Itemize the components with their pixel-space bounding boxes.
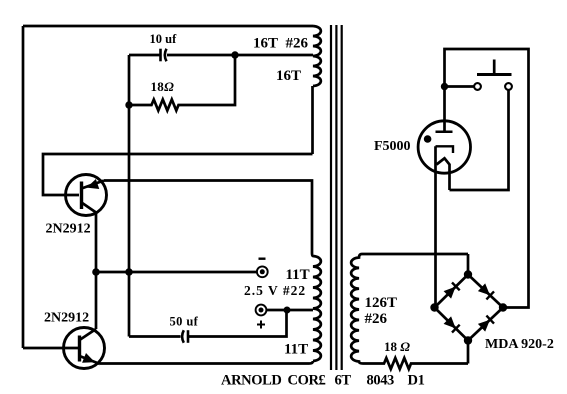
transistor Q1 base bar	[80, 182, 83, 210]
transistor Q2 2N2912 circle	[64, 328, 105, 369]
diode D4 bottom-right arrow to right node	[479, 321, 489, 331]
diode D2 top-right arrow to right node	[479, 284, 489, 294]
wire vertical x129	[128, 55, 131, 337]
capacitor C2 50 uf	[182, 330, 184, 343]
svg-text:16T #26: 16T #26	[253, 35, 309, 51]
svg-text:COR£: COR£	[288, 373, 326, 389]
flash tube trigger dot	[424, 135, 432, 143]
wire collectors y272	[96, 271, 257, 274]
flash tube cathode lead to bridge left	[434, 146, 437, 307]
svg-text:126T: 126T	[365, 295, 398, 311]
wire bridge right to rail	[445, 49, 529, 308]
capacitor C1 10 uf	[159, 49, 162, 62]
svg-text:2N2912: 2N2912	[46, 222, 91, 237]
transformer T1 winding 16T #26 + 16T	[313, 26, 321, 86]
wire tap 16T	[235, 54, 313, 57]
transformer winding 11T 11T	[313, 256, 321, 361]
transistor Q2 base bar	[78, 336, 81, 362]
svg-text:18Ω: 18Ω	[151, 79, 175, 94]
wire Q2 collector vertical	[95, 272, 98, 329]
transistor Q1 collector diagonal	[82, 203, 97, 273]
node junction tube top	[441, 83, 448, 90]
svg-text:2N2912: 2N2912	[44, 311, 89, 326]
node bridge left	[430, 303, 438, 311]
wire Q2 base	[23, 347, 78, 350]
wire top	[23, 25, 313, 28]
svg-text:ARNOLD: ARNOLD	[221, 373, 281, 389]
wire Q1 emitter to winding 11T top	[104, 181, 313, 257]
transformer core	[331, 25, 342, 370]
bridge rectifier MDA 920-2 edges	[435, 275, 504, 341]
svg-text:50 uf: 50 uf	[170, 315, 199, 329]
pushbutton switch S1 contact right	[505, 83, 512, 90]
svg-text:18 Ω: 18 Ω	[384, 339, 410, 354]
transistor Q2 emitter arrow	[83, 354, 94, 362]
transistor Q1 emitter arrow	[88, 180, 98, 188]
wire left rail	[22, 26, 25, 348]
terminal plus 2.5V	[256, 305, 267, 316]
resistor R1 18 ohm	[129, 55, 235, 111]
node junction R1 left	[125, 101, 132, 108]
flash tube F5000 envelope	[418, 121, 470, 173]
node junction collectors right	[125, 268, 133, 276]
wire bridge top lead	[467, 254, 470, 275]
pushbutton switch S1 contact left	[474, 83, 481, 90]
wire y151 to Q1 base loop	[43, 154, 313, 195]
diode D1 left-top arrow to top node	[445, 288, 455, 298]
wire winding bottom to y151	[311, 86, 314, 154]
transistor Q2 emitter diagonal	[80, 356, 101, 364]
wire bridge bottom lead	[467, 341, 470, 364]
svg-text:F5000: F5000	[374, 139, 411, 154]
flash tube anode bar	[436, 130, 453, 133]
node bridge bottom	[464, 336, 472, 344]
wire 50uf branch	[129, 310, 287, 337]
flash tube anode lead	[443, 87, 446, 132]
flash tube cathode filament	[437, 158, 450, 190]
node junction C1 tap	[231, 51, 238, 58]
transistor Q2 collector diagonal	[80, 329, 97, 340]
svg-text:D1: D1	[408, 373, 425, 389]
wire capacitor branch	[129, 54, 235, 57]
svg-text:8043: 8043	[367, 373, 395, 389]
svg-text:11T: 11T	[286, 267, 310, 283]
svg-text:2.5 V #22: 2.5 V #22	[244, 283, 306, 298]
diode D3 left-bottom arrow to bottom node	[445, 317, 455, 327]
flash tube electrode	[436, 146, 454, 153]
transformer winding 126T #26	[351, 254, 468, 364]
svg-text:#26: #26	[365, 311, 388, 327]
node junction collectors left	[92, 268, 100, 276]
node bridge right	[499, 303, 507, 311]
node junction plus tap	[284, 307, 291, 314]
transistor Q1 emitter diagonal	[82, 181, 105, 189]
svg-text:16T: 16T	[276, 68, 301, 84]
wire winding 11T bottom to Q2 emitter	[100, 361, 313, 364]
wire to switch	[445, 85, 475, 88]
svg-text:6T: 6T	[335, 373, 352, 389]
resistor R2 18 ohm	[363, 358, 468, 369]
terminal minus 2.5V	[257, 266, 268, 277]
pushbutton switch S1 bar	[477, 73, 512, 76]
node bridge top	[464, 270, 472, 278]
svg-text:11T: 11T	[284, 342, 308, 358]
pushbutton switch S1 plunger	[493, 60, 496, 74]
wire plus terminal to winding tap	[267, 309, 314, 312]
svg-text:MDA 920-2: MDA 920-2	[485, 337, 554, 352]
transistor Q1 2N2912 circle	[66, 175, 107, 216]
wire switch right down and left to tube	[450, 90, 509, 190]
svg-text:10 uf: 10 uf	[150, 32, 178, 46]
